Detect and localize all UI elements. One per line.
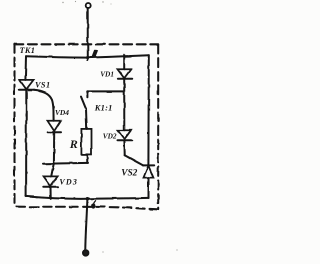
wire: left branch lower (VS1 cathode to B line): [25, 90, 27, 197]
wire: VD1 cathode to VD2 anode: [123, 79, 125, 130]
node B label: [91, 200, 96, 208]
node A junction dot: [86, 56, 89, 59]
wire: left branch upper (A to VS1 anode): [24, 56, 27, 80]
node B junction dot: [86, 197, 89, 200]
terminal bottom: [83, 250, 89, 256]
thyristor VS2: [143, 165, 154, 177]
diode VD2: [117, 130, 132, 140]
diode VD3: [43, 176, 58, 186]
wire: contact to resistor: [85, 109, 88, 129]
wire: VD2 cathode down: [123, 140, 125, 155]
diode VD4: [48, 121, 62, 132]
wire: node B to bottom terminal: [85, 199, 87, 250]
outer dashed box: bottom edge: [15, 207, 158, 210]
outer dashed box: right edge: [157, 45, 159, 210]
svg-text:VS2: VS2: [121, 168, 137, 178]
diode VD1: [118, 69, 133, 79]
outer dashed box: left edge: [13, 44, 15, 207]
wire: junction horizontal (R bottom to VD4/VD3 column): [44, 162, 89, 165]
svg-text:R: R: [69, 137, 78, 151]
wire: VD1 column top (overshoot above A line): [123, 55, 125, 70]
svg-text:VD1: VD1: [100, 70, 114, 79]
wire: VS2 gate diagonal: [125, 155, 143, 165]
wire: right branch lower (VS2 anode to B line): [148, 178, 150, 198]
svg-text:VD4: VD4: [55, 108, 69, 117]
outer dashed box TK1: top edge: [14, 43, 158, 45]
wire: inner top bus (node A line): [26, 55, 149, 57]
wire top lead: [87, 8, 89, 60]
wire: VD3 cathode to B line: [50, 187, 52, 199]
wire: right branch upper (A line to VS2 cathode): [147, 55, 149, 165]
thyristor VS1: [19, 80, 34, 90]
wire: VS1 gate to VD4 anode: [34, 90, 54, 121]
node A label: [91, 50, 98, 58]
terminal top: [86, 3, 91, 8]
svg-text:K1:1: K1:1: [94, 102, 113, 112]
contact K1:1: [81, 91, 87, 109]
wire: junction down to VD3 anode: [51, 163, 54, 176]
scan specks: [62, 1, 177, 253]
wire: resistor bottom lead: [86, 154, 88, 163]
wire: VD4 cathode down to junction: [53, 132, 55, 163]
svg-text:VS1: VS1: [35, 80, 51, 89]
wire: contact branch horizontal: [87, 90, 124, 92]
svg-text:VD2: VD2: [103, 131, 117, 140]
wire: inner bottom bus (node B line): [26, 196, 149, 198]
svg-text:VD3: VD3: [59, 177, 78, 186]
resistor R: [81, 129, 91, 155]
svg-text:TK1: TK1: [20, 46, 36, 55]
